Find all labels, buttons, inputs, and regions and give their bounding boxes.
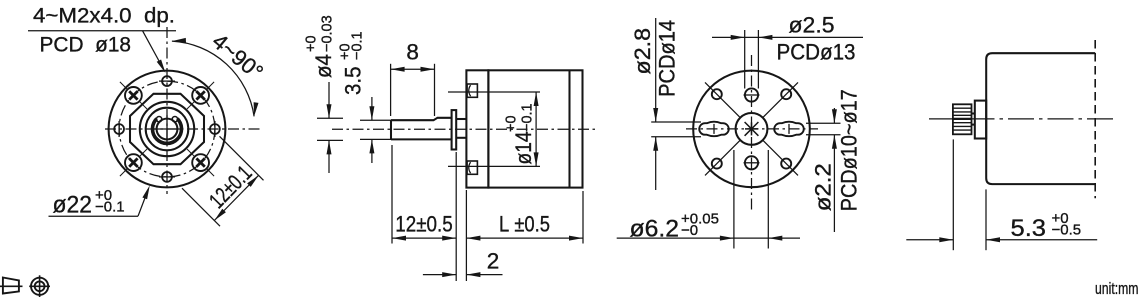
view 4 motor body: [986, 53, 1095, 184]
label PCD Ø18: [40, 33, 132, 57]
leader line Ø22: [138, 185, 150, 216]
view 4 hub step: [972, 114, 975, 125]
label 12±0.1: [204, 160, 257, 213]
svg-text:+0: +0: [304, 35, 320, 52]
label 4~90 deg: [208, 28, 269, 84]
view 4 pinion gear: [953, 104, 972, 134]
view 3 hole Ø2.2 SW: [712, 159, 722, 169]
view 1 M2 tapped hole E: [210, 121, 220, 137]
view 1 phillips screw SE: [187, 149, 214, 176]
view 1 clip tab left: [156, 117, 161, 122]
view 1 chamfered square case: [130, 94, 204, 164]
label 3.5 tolerance: [338, 31, 366, 60]
label Ø14 with tolerance: [504, 103, 537, 164]
view 1 outer circle Ø22: [109, 71, 226, 188]
view 3 hole Ø2.5 S: [744, 156, 760, 169]
view 1 shaft cross ticks: [153, 115, 181, 143]
extension line 12±0.1 lower: [182, 188, 220, 226]
view 1 bolt circle PCD18 (dash-dot): [119, 81, 215, 177]
svg-text:PCD ø18: PCD ø18: [40, 33, 132, 57]
view 1 inner circle r27: [140, 102, 194, 156]
extension lines bottom view 2: [392, 145, 583, 281]
view 3 center boss Ø6.2: [736, 113, 768, 145]
view 3 horizontal centerline: [686, 128, 818, 130]
svg-text:−0.1: −0.1: [95, 199, 125, 216]
label PCDØ14: [655, 20, 680, 97]
view 3 diagonal centerline NW-SE: [705, 82, 798, 175]
dimension L±0.5: [466, 212, 583, 241]
svg-text:ø2.5: ø2.5: [789, 13, 835, 38]
label Ø4 tolerance: [304, 15, 336, 52]
svg-text:−0.1: −0.1: [350, 31, 366, 60]
view 2 washer: [452, 110, 457, 149]
svg-text:ø2.8: ø2.8: [630, 28, 655, 75]
view 1 phillips screw NE: [187, 82, 214, 109]
view 3 knurled shaft asterisk: [745, 122, 759, 136]
svg-text:PCDø10~ø17: PCDø10~ø17: [837, 89, 862, 211]
label Ø2.8: [630, 28, 655, 75]
view 1 shaft circle Ø4: [157, 119, 178, 140]
view 2 front plate: [466, 70, 488, 187]
svg-text:unit:mm: unit:mm: [1095, 280, 1139, 297]
svg-text:−0.1: −0.1: [520, 103, 536, 132]
view 2 back cap line: [568, 70, 570, 187]
dimension Ø14 lines: [448, 92, 540, 166]
view 1 M2 tapped hole N: [159, 76, 175, 86]
dimension 2: [423, 249, 503, 278]
svg-text:ø14: ø14: [511, 132, 536, 165]
svg-text:3.5: 3.5: [341, 67, 366, 96]
label Ø22: [53, 192, 93, 219]
svg-text:8: 8: [406, 40, 419, 65]
view 2 screw head top: [467, 84, 477, 97]
dimension Ø2.2 arrows: [806, 108, 841, 232]
svg-text:12±0.5: 12±0.5: [395, 212, 453, 237]
view 4 dashed right edge: [1094, 40, 1096, 198]
leader shelf M2: [28, 30, 176, 32]
dimension Ø2.5 PCD13: [712, 13, 863, 89]
view 1 retaining clip ring: [153, 119, 182, 144]
svg-text:L ±0.5: L ±0.5: [499, 212, 550, 237]
svg-text:−0.5: −0.5: [1052, 222, 1082, 239]
view 1 inner circle r21: [146, 108, 189, 151]
label Ø2.2: [811, 163, 836, 211]
svg-text:4~M2x4.0 dp.: 4~M2x4.0 dp.: [33, 4, 175, 28]
view 3 outer circle: [693, 71, 810, 188]
view 3 terminal slot E: [774, 122, 804, 136]
view 2 screw head bottom: [467, 161, 477, 174]
svg-text:PCDø14: PCDø14: [655, 20, 680, 97]
view 2 shaft hub: [456, 119, 466, 138]
label 3.5: [341, 67, 366, 96]
view 2 centerline: [332, 128, 597, 130]
svg-text:−0.03: −0.03: [320, 15, 336, 52]
view 2 output shaft: [391, 118, 452, 140]
label Ø22 tolerance: [95, 187, 125, 216]
view 3 hole Ø2.2 NE: [781, 89, 791, 99]
view 1 phillips screw SW: [120, 149, 147, 176]
label stack line left: [655, 18, 657, 100]
dimension 8: [391, 40, 435, 117]
view 2 body: [488, 70, 582, 187]
svg-text:5.3: 5.3: [1011, 215, 1047, 242]
view 1 M2 tapped hole S: [159, 172, 175, 182]
label unit:mm: [1095, 280, 1139, 297]
view 3 hole Ø2.2 SE: [781, 159, 791, 169]
dimension Ø2.8 arrows: [651, 100, 701, 190]
projection symbol cone: [0, 278, 23, 294]
svg-text:ø6.2: ø6.2: [630, 216, 680, 243]
dimension Ø4 lines: [317, 82, 343, 173]
dimension 3.5 lines: [360, 97, 392, 163]
label Ø4: [311, 54, 336, 78]
dimension line 12±0.1: [214, 175, 258, 220]
view 1 vertical centerline: [166, 27, 168, 194]
view 1 phillips screw NW: [120, 82, 147, 109]
svg-text:−0: −0: [681, 222, 698, 239]
dimension 12±0.5: [392, 212, 456, 241]
svg-text:ø4: ø4: [311, 54, 336, 78]
view 3 hole Ø2.2 NW: [712, 89, 722, 99]
view 1 clip tab right: [172, 117, 177, 122]
dimension Ø6.2: [617, 150, 800, 249]
dimension arc 4~90: [172, 38, 259, 117]
extension line 12±0.1 upper: [220, 136, 264, 180]
view 1 M2 tapped hole W: [114, 121, 124, 137]
svg-text:ø22: ø22: [53, 192, 93, 219]
view 3 terminal slot W: [699, 122, 729, 136]
dimension 5.3: [906, 139, 1097, 250]
svg-text:+0: +0: [504, 115, 520, 132]
view 4 centerline: [929, 118, 1113, 120]
svg-text:ø2.2: ø2.2: [811, 163, 836, 211]
label 4~M2x4.0 dp.: [33, 4, 175, 28]
view 3 hole Ø2.5 N: [744, 88, 760, 101]
svg-text:PCDø13: PCDø13: [777, 40, 856, 65]
view 3 diagonal centerline NE-SW: [705, 82, 798, 175]
view 4 end plate: [975, 101, 986, 139]
leader line M2: [143, 31, 166, 73]
view 3 vertical centerline: [751, 55, 753, 213]
label PCDØ10~Ø17: [837, 89, 862, 211]
projection symbol target circles: [29, 275, 50, 297]
view 1 horizontal centerline: [105, 128, 263, 130]
leader shelf Ø22: [49, 215, 139, 217]
svg-text:2: 2: [487, 249, 500, 274]
